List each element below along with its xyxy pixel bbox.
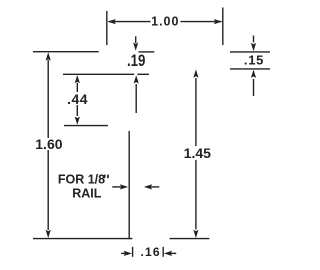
- rail callout left-pointing arrow stem: [149, 186, 160, 188]
- dim .19 top short line: [139, 51, 155, 53]
- arrowhead 1.60 down: [46, 230, 51, 238]
- dim .15 top extension line: [230, 51, 271, 53]
- arrowhead rail left-pointing: [144, 184, 152, 189]
- dim .16 right tick: [162, 247, 164, 257]
- rail callout right-pointing arrow stem: [112, 186, 123, 188]
- dim 1.60 top extension line: [33, 51, 99, 53]
- dim .44 upper arrow stem: [76, 83, 78, 92]
- svg-text:.19: .19: [127, 51, 145, 70]
- arrowhead 1.60 up: [46, 52, 51, 60]
- dim 1.00 extension line right: [222, 8, 224, 46]
- dim .16 left tick: [132, 247, 134, 257]
- svg-text:1.45: 1.45: [184, 145, 211, 161]
- dim .44 bottom line: [64, 125, 108, 127]
- dim .15 upper arrow stem: [253, 36, 255, 43]
- dim 1.00 dimension line: [109, 21, 151, 23]
- svg-text:.16: .16: [140, 245, 160, 259]
- dim .44 lower arrow stem: [76, 105, 78, 116]
- dim .15 bottom extension line: [230, 68, 271, 70]
- arrowhead .16 right-pointing: [124, 251, 132, 256]
- svg-text:RAIL: RAIL: [72, 186, 102, 200]
- arrowhead .15 down: [251, 43, 256, 51]
- dim 1.60 dimension line: [47, 60, 49, 138]
- arrowhead .19 down: [133, 43, 138, 51]
- svg-text:FOR 1/8: FOR 1/8: [58, 172, 105, 186]
- arrowhead .19 up: [134, 75, 139, 83]
- dim .16 right arrow stem: [168, 252, 176, 254]
- arrowhead 1.00 right: [214, 19, 222, 24]
- bottom object line: [33, 238, 132, 240]
- dim .16 left arrow stem: [121, 252, 127, 254]
- dim .19 upper arrow stem: [135, 36, 137, 43]
- svg-text:.15: .15: [244, 53, 264, 68]
- inch mark tick 2: [107, 175, 109, 179]
- arrowhead .44 up: [75, 75, 80, 83]
- arrowhead 1.45 down: [193, 230, 198, 238]
- arrowhead .15 up: [251, 70, 256, 78]
- dim 1.00 extension line left: [106, 11, 108, 45]
- dim .15 lower arrow stem: [253, 79, 255, 96]
- arrowhead rail right-pointing: [120, 184, 128, 189]
- svg-text:1.60: 1.60: [35, 136, 62, 152]
- slot left wall line: [128, 131, 130, 239]
- svg-text:1.00: 1.00: [151, 15, 179, 29]
- inch mark tick 1: [103, 175, 105, 179]
- arrowhead .16 left-pointing: [164, 251, 172, 256]
- arrowhead 1.45 up: [193, 69, 198, 77]
- svg-text:.44: .44: [67, 91, 88, 107]
- arrowhead .44 down: [75, 117, 80, 125]
- arrowhead 1.00 left: [108, 19, 116, 24]
- dim .44 / .19 shared line: [63, 73, 134, 75]
- dim .19 lower arrow stem: [135, 84, 137, 113]
- dim 1.45 dimension line: [195, 78, 197, 146]
